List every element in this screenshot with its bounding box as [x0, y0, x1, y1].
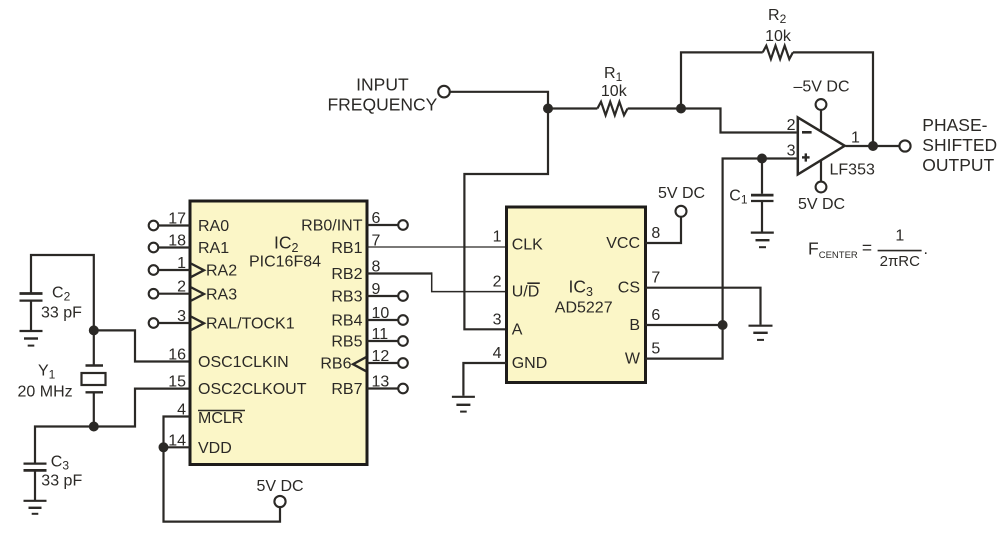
svg-text:33 pF: 33 pF: [41, 473, 82, 490]
pin 13 terminal circle: [398, 384, 408, 394]
wire: input node down to A pin 3: [464, 109, 548, 330]
wire: GND pin 4 to ground: [463, 363, 506, 396]
pin 1 input arrow: [191, 263, 204, 277]
pin 1 RA2: wire: [159, 269, 191, 271]
svg-text:11: 11: [372, 326, 389, 343]
pin 17 RA0: wire: [159, 224, 191, 226]
op-amp plus sign: [802, 153, 810, 161]
svg-text:VCC: VCC: [606, 235, 640, 252]
svg-text:AD5227: AD5227: [555, 299, 613, 316]
wire: B/W node to noninverting input: [723, 159, 797, 326]
pin 9 terminal circle: [398, 291, 408, 301]
wire: CS pin 7 to ground: [646, 288, 761, 325]
pin 18 RA1: wire: [159, 246, 191, 248]
svg-text:OSC1CLKIN: OSC1CLKIN: [198, 354, 289, 371]
junction: crystal bottom node: [89, 422, 99, 432]
pin 2 input arrow: [191, 287, 204, 301]
wire: crystal top node to OSC1CLKIN pin 16: [94, 330, 190, 361]
ground (IC3 GND): [452, 397, 475, 412]
svg-text:1: 1: [851, 130, 860, 147]
svg-text:1: 1: [177, 255, 186, 272]
svg-text:5V DC: 5V DC: [256, 478, 303, 495]
svg-text:RB1: RB1: [331, 240, 362, 257]
wire: C3 to ground: [34, 470, 36, 500]
wire: R2 feedback left leg: [681, 52, 763, 108]
svg-text:2: 2: [493, 274, 502, 291]
capacitor C1: [751, 195, 774, 201]
pin 3 terminal circle: [149, 318, 159, 328]
pin 12 RB6: wire: [367, 362, 398, 364]
wire: op-amp output: [846, 145, 900, 147]
junction: C1 node: [757, 154, 767, 164]
wire: RB1 pin 7 to CLK pin 1: [367, 246, 507, 248]
terminal: 5V DC (op-amp): [816, 182, 827, 193]
wire: R2 right leg to output node: [793, 52, 873, 146]
terminal: INPUT FREQUENCY: [438, 86, 450, 98]
IC U2: PIC16F84 body: [190, 201, 367, 465]
pin 9 RB3: wire: [367, 295, 398, 297]
svg-text:6: 6: [372, 210, 381, 227]
wire: MCLR pin 4 to VDD node: [164, 417, 191, 448]
wire: op-amp to 5V: [820, 160, 822, 181]
pin 6 terminal circle: [398, 220, 408, 230]
svg-text:LF353: LF353: [830, 161, 875, 178]
svg-text:6: 6: [651, 307, 660, 324]
pin 10 terminal circle: [398, 315, 408, 325]
svg-text:1: 1: [895, 228, 904, 245]
svg-text:2πRC: 2πRC: [880, 253, 921, 270]
pin 18 terminal circle: [149, 243, 159, 253]
junction: B/W node: [718, 320, 728, 330]
wire: VDD node to 5V DC terminal: [164, 447, 281, 521]
wire: VCC pin 8 to 5V DC terminal: [646, 217, 682, 243]
svg-text:RB2: RB2: [331, 266, 362, 283]
svg-text:W: W: [625, 350, 641, 367]
resistor R2: [763, 46, 793, 59]
svg-text:RA3: RA3: [206, 287, 237, 304]
svg-text:5V DC: 5V DC: [798, 196, 845, 213]
svg-text:PIC16F84: PIC16F84: [249, 254, 321, 271]
wire: RB2 pin 8 to U/D pin 2: [367, 272, 432, 274]
svg-text:3: 3: [177, 308, 186, 325]
op-amp U1 LF353: [798, 117, 845, 174]
svg-text:VDD: VDD: [198, 440, 232, 457]
wire: C2 top rail to crystal-top node: [31, 255, 94, 330]
junction: output node: [868, 141, 878, 151]
svg-text:A: A: [512, 321, 523, 338]
pin 3 input arrow: [191, 316, 204, 330]
svg-text:SHIFTED: SHIFTED: [922, 135, 997, 155]
svg-text:3: 3: [787, 143, 796, 160]
pin 3 RAL/TOCK1: wire: [159, 322, 191, 324]
pin 1 terminal circle: [149, 265, 159, 275]
wire: C1 node down: [761, 159, 763, 194]
ground (CS): [749, 326, 773, 340]
svg-text:CS: CS: [618, 280, 640, 297]
svg-text:OSC2CLKOUT: OSC2CLKOUT: [198, 381, 307, 398]
svg-text:.: .: [924, 241, 928, 258]
wire: VDD pin 14: [164, 446, 191, 448]
wire: C1 to ground: [761, 201, 763, 232]
svg-text:OUTPUT: OUTPUT: [922, 155, 994, 175]
wire: B pin 6 to B/W node: [646, 324, 723, 326]
svg-text:18: 18: [168, 233, 186, 250]
svg-text:PHASE-: PHASE-: [922, 115, 987, 135]
wire: bottom node to C3: [35, 427, 94, 464]
resistor R1: [597, 102, 627, 115]
wire: crystal to bottom node: [93, 394, 95, 427]
IC U3: AD5227 body: [507, 207, 646, 383]
svg-text:2: 2: [177, 279, 186, 296]
terminal: phase-shifted output: [899, 140, 910, 151]
svg-text:RB5: RB5: [331, 334, 362, 351]
wire: top node to crystal: [93, 330, 95, 364]
wire: C2 to ground: [30, 301, 32, 331]
wire: input terminal to input node: [450, 92, 548, 109]
terminal: 5V DC (PIC supply): [274, 496, 285, 507]
svg-text:GND: GND: [512, 355, 548, 372]
svg-text:RB3: RB3: [331, 289, 362, 306]
ground (C2): [20, 331, 43, 346]
wire: -5V to op-amp: [820, 110, 822, 132]
capacitor C2: [20, 294, 43, 301]
pin 6 RB0/INT: wire: [367, 224, 398, 226]
svg-text:RAL/TOCK1: RAL/TOCK1: [206, 316, 295, 333]
svg-text:13: 13: [372, 374, 390, 391]
svg-text:RB4: RB4: [331, 313, 362, 330]
svg-text:RB6: RB6: [320, 356, 351, 373]
wire: R1/R2 node to inverting input: [681, 109, 797, 133]
svg-text:33 pF: 33 pF: [41, 305, 82, 322]
svg-text:10: 10: [372, 305, 390, 322]
pin 10 RB4: wire: [367, 319, 398, 321]
wire: R1 to R1/R2 node: [628, 107, 681, 109]
svg-text:CLK: CLK: [512, 237, 543, 254]
svg-text:10k: 10k: [765, 28, 792, 45]
capacitor C3: [24, 464, 47, 471]
pin 2 RA3: wire: [159, 293, 191, 295]
svg-text:12: 12: [372, 348, 390, 365]
svg-text:8: 8: [651, 225, 660, 242]
pin 11 terminal circle: [398, 336, 408, 346]
svg-text:7: 7: [651, 270, 660, 287]
svg-text:RB0/INT: RB0/INT: [301, 218, 363, 235]
svg-text:2: 2: [787, 117, 796, 134]
label PHASE-SHIFTED OUTPUT: [922, 115, 997, 175]
junction: input node: [543, 104, 553, 114]
svg-text:RA2: RA2: [206, 263, 237, 280]
svg-text:3: 3: [493, 311, 502, 328]
svg-text:INPUT: INPUT: [356, 75, 409, 95]
svg-text:FREQUENCY: FREQUENCY: [327, 95, 437, 115]
svg-text:RA1: RA1: [198, 240, 229, 257]
svg-text:5V DC: 5V DC: [658, 185, 705, 202]
svg-text:RB7: RB7: [331, 381, 362, 398]
wire: input node to R1: [548, 107, 597, 109]
crystal Y1: [82, 366, 106, 393]
junction: crystal top node: [89, 325, 99, 335]
svg-text:5: 5: [651, 340, 660, 357]
pin 17 terminal circle: [149, 221, 159, 231]
svg-text:U/D: U/D: [512, 284, 540, 301]
svg-text:=: =: [862, 237, 872, 257]
svg-text:–5V DC: –5V DC: [793, 79, 849, 96]
terminal: -5V DC: [816, 99, 827, 110]
pin 12 terminal circle: [398, 358, 408, 368]
ground (C1): [751, 233, 774, 248]
svg-text:15: 15: [168, 374, 186, 391]
svg-text:16: 16: [168, 347, 186, 364]
pin 2 terminal circle: [149, 289, 159, 299]
svg-text:20 MHz: 20 MHz: [18, 384, 73, 401]
svg-text:B: B: [629, 317, 640, 334]
svg-text:RA0: RA0: [198, 218, 229, 235]
wire: crystal bottom node to OSC2CLKOUT pin 15: [94, 389, 190, 427]
svg-text:4: 4: [493, 345, 502, 362]
svg-text:10k: 10k: [601, 83, 628, 100]
pin 13 RB7: wire: [367, 387, 398, 389]
svg-text:MCLR: MCLR: [198, 410, 243, 427]
junction: R1/R2 node: [676, 104, 686, 114]
terminal: 5V DC (IC3 supply): [676, 206, 687, 217]
svg-text:1: 1: [493, 229, 502, 246]
svg-text:17: 17: [168, 211, 186, 228]
pin 11 RB5: wire: [367, 340, 398, 342]
ground (C3): [24, 501, 47, 514]
svg-text:9: 9: [372, 281, 381, 298]
wire: W pin 5 to B/W node: [646, 325, 723, 359]
junction: VDD node: [159, 442, 169, 452]
formula F_CENTER = 1/(2piRC): [808, 228, 928, 270]
pin 12 arrow: [353, 357, 366, 371]
op-amp minus sign: [802, 131, 812, 134]
